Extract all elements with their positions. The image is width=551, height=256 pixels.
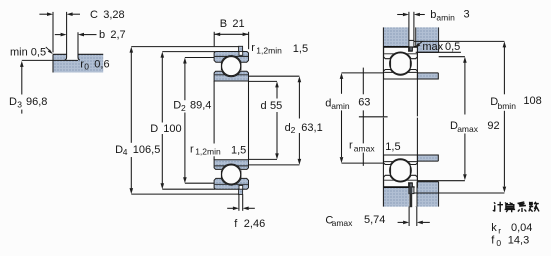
b_amin arrow left [403,13,409,17]
D2 dimension lower horizontal [185,182,214,184]
D4 dimension line upper [130,52,132,143]
bearing inner ring section [384,70,418,80]
f extension line left [238,194,240,211]
D3 groove bottom level line [22,59,78,61]
svg-text:89,4: 89,4 [190,100,211,112]
svg-text:100: 100 [163,123,181,135]
outer ring band boundary line [384,53,417,55]
right face line across bore [248,81,250,160]
max 0,5 leader arrowhead [415,43,420,48]
ring section left edge (face) [52,54,54,72]
svg-text:bmin: bmin [498,101,517,111]
D_bmin dimension line lower [503,111,505,187]
centerline stub [359,116,388,118]
snap ring lug (bottom only) [409,194,412,208]
b_amin arrow right [414,13,420,17]
svg-text:B 21: B 21 [220,18,245,30]
C_amax extension line left [408,207,410,226]
dimension C line right segment [72,13,80,15]
D dimension lower horizontal [162,188,215,190]
dimension b line right segment [84,34,97,36]
outer ring band boundary line [215,55,248,57]
D_amax upper horizontal [439,56,465,58]
left face line across bore (lower part) [213,156,215,159]
D_bmin arrow down [503,187,507,193]
shaft abutment shoulder band [418,73,439,79]
svg-text:d: d [261,100,267,112]
svg-text:amax: amax [354,143,376,153]
snap ring outer part [409,40,414,47]
shoulder top edge [418,72,439,74]
d2 dimension line upper [298,82,300,119]
D dimension upper horizontal [162,51,215,53]
svg-text:14,3: 14,3 [508,235,529,247]
svg-text:k: k [491,222,497,234]
D3 dimension line [21,66,23,95]
snap ring cross-section bar [239,46,243,51]
D_amax lower horizontal [418,180,465,182]
groove right wall + extension line [78,32,80,60]
svg-text:1,5: 1,5 [385,141,400,153]
svg-text:r: r [190,143,194,155]
groove slot white [65,48,80,60]
min 0,5 leader arrowhead [48,49,53,54]
outer ring top section [214,52,248,63]
ball top [222,57,241,76]
svg-text:r: r [349,139,353,151]
svg-text:106,5: 106,5 [133,144,161,156]
D4 dimension line lower [130,157,132,188]
dimension b left arrow [61,33,67,37]
d dimension line upper [276,87,278,99]
svg-text:max: max [422,41,443,53]
inner ring shoulder boundary line [215,74,248,76]
d dimension lower horizontal [249,158,278,160]
D2 dimension upper horizontal [185,57,214,59]
D2 arrow down [183,177,187,183]
D4 dimension upper horizontal [131,46,238,48]
B arrow right [243,33,249,37]
dimension C face extension line [52,12,54,53]
C_amax arrow left [403,221,409,225]
max 0,5 underline [416,51,461,53]
d_amin dimension line upper [341,78,343,94]
dimension C left arrow [47,12,53,16]
svg-text:amax: amax [332,218,354,228]
D3 dimension arrow up [20,61,24,67]
left face line (half) [382,27,384,116]
svg-text:63,1: 63,1 [301,122,322,134]
dimension b right arrow [78,33,84,37]
snap ring in-groove part [409,47,412,51]
label: calculation factors (Chinese, hand-drawn) [493,202,539,212]
d_amin upper horizontal [342,72,384,74]
svg-text:b 2,7: b 2,7 [99,29,126,41]
auxiliary vertical line upper [362,68,364,95]
bottom housing block left edge [416,182,418,207]
svg-text:1,5: 1,5 [293,43,308,55]
d2 dimension upper horizontal [249,75,300,77]
D4 arrow down [130,188,134,194]
svg-text:3: 3 [17,100,22,110]
cage tick right [240,63,242,71]
B arrow left [214,33,220,37]
top half group (mirrored below) [214,46,248,81]
svg-text:D: D [150,123,158,135]
D arrow up [161,52,165,58]
housing block right edge [438,27,440,52]
ring section top edge [53,53,103,55]
f arrow right [243,207,249,211]
max 0,5 leader diagonal [417,41,423,46]
C_amax dimension left segment [398,221,404,223]
svg-text:C 3,28: C 3,28 [90,9,125,21]
svg-text:amin: amin [331,101,350,111]
auxiliary vertical line lower [362,110,364,165]
svg-text:4: 4 [123,147,128,157]
d2 arrow up [298,76,302,82]
B dimension line [214,33,248,35]
D4 dimension lower horizontal [131,193,238,195]
groove left wall + extension line [65,12,67,60]
f dimension left segment [227,207,234,209]
B dimension extension line left [213,32,215,47]
svg-text:D: D [9,96,17,108]
svg-text:1,5: 1,5 [231,144,246,156]
d2 dimension lower horizontal [249,164,300,166]
bearing outer ring section [384,47,418,59]
d arrow down [275,153,279,159]
D_amax arrow down [463,174,467,180]
shoulder bottom / bore line [384,78,439,80]
f arrow left [233,207,239,211]
svg-text:92: 92 [487,120,499,132]
svg-text:55: 55 [270,100,282,112]
D_bmin arrow up [503,41,507,47]
B dimension extension line right [248,32,250,49]
D arrow down [161,183,165,189]
f dimension right segment [249,207,255,209]
D2 dimension line lower [184,113,186,178]
dimension C line left segment [39,13,47,15]
svg-text:min 0,5: min 0,5 [10,46,46,58]
dimension b line left segment [55,34,61,36]
svg-text:2,46: 2,46 [244,218,265,230]
D2 arrow up [183,58,187,64]
D_amax dimension line upper [464,62,466,115]
housing block bottom edge [416,51,439,53]
b_amin extension line right [413,12,415,40]
housing bore band [384,27,409,46]
D_amax arrow up [463,57,467,63]
d_amin arrow up [340,73,344,79]
D2 dimension line upper [184,63,186,100]
D4 arrow up [130,47,134,53]
D_bmin lower horizontal [414,192,505,194]
cage tick left [220,63,222,71]
svg-text:r: r [498,226,501,236]
shoulder right edge [437,73,439,80]
left face line across bore (upper part) [213,81,215,144]
d dimension upper horizontal [249,80,278,82]
svg-text:1,2min: 1,2min [195,146,221,156]
f extension line right [242,194,244,211]
mirrored bottom half [383,118,438,207]
d_amin arrow down [340,157,344,163]
C_amax extension line right [416,207,418,226]
svg-text:r: r [251,42,255,54]
svg-text:amin: amin [436,13,455,23]
cage tick right [409,59,411,68]
svg-text:1,2min: 1,2min [256,46,282,56]
snap ring bottom bar dark part [409,187,412,193]
svg-text:5,74: 5,74 [364,214,385,226]
inner ring top section [214,71,248,81]
b_amin dimension left segment [397,14,403,16]
D dimension line lower [161,134,163,184]
bearing outer ring OD seam (thick) [384,46,418,48]
groove detail ring section (shaded rectangle) [53,54,103,72]
svg-text:amax: amax [457,124,479,134]
d2 arrow down [298,159,302,165]
dimension C right arrow [67,12,73,16]
svg-text:0,04: 0,04 [511,222,532,234]
b_amin extension line left [408,12,410,40]
svg-text:0: 0 [496,238,501,248]
housing block left edge [415,27,417,52]
d dimension line lower [276,112,278,154]
ball [390,53,412,75]
snap ring groove slot [239,51,243,55]
svg-text:2: 2 [291,125,296,135]
C_amax arrow right [417,221,423,225]
D_bmin upper horizontal [414,40,505,42]
D_amax dimension line lower [464,134,466,175]
svg-text:3: 3 [464,9,470,21]
C_amax dimension right segment [423,221,430,223]
svg-text:96,8: 96,8 [26,96,47,108]
D_bmin dimension line upper [503,47,505,95]
svg-text:63: 63 [358,96,370,108]
svg-text:0,5: 0,5 [445,41,460,53]
d arrow up [275,81,279,87]
right face line (half) [416,52,418,116]
svg-text:0,6: 0,6 [94,59,109,71]
white trim left of bottom housing block [415,182,417,207]
housing block right of snap ring [416,27,439,52]
cage tick left [390,59,392,68]
svg-text:0: 0 [84,62,89,72]
min 0,5 leader line [46,47,51,52]
D3 dimension line lower stub [21,110,23,114]
d_amin lower horizontal [342,162,384,164]
d2 dimension line lower [298,133,300,159]
D dimension line upper [161,57,163,123]
svg-text:2: 2 [181,103,186,113]
svg-text:108: 108 [523,95,541,107]
d_amin dimension line lower [341,110,343,157]
snap ring groove slot [409,47,413,51]
b_amin dimension right segment [420,14,425,16]
inner ring shoulder boundary line [384,71,417,73]
bottom half: mirrored copy [214,160,248,195]
